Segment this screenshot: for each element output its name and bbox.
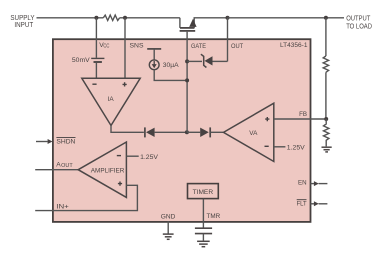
pin label GATE bbox=[191, 43, 207, 50]
svg-text:OUT: OUT bbox=[61, 163, 72, 169]
wire OUT pin down to zener bbox=[227, 18, 229, 62]
reference 1.25V at amplifier bbox=[126, 154, 158, 161]
wire SNS pin to IA non-inverting input bbox=[124, 18, 126, 79]
wire IN+ to amplifier non-inverting input bbox=[35, 185, 137, 210]
wire IA output down to diode row bbox=[111, 125, 144, 132]
wire gate to zener bbox=[187, 60, 202, 62]
svg-text:1.25V: 1.25V bbox=[140, 154, 158, 161]
ground (TMR capacitor) bbox=[197, 241, 210, 246]
op-amp AMPLIFIER bbox=[78, 142, 126, 197]
node SUPPLY INPUT label bbox=[10, 13, 34, 29]
pin label VCC bbox=[99, 42, 109, 50]
pin label AOUT bbox=[56, 162, 72, 170]
resistor RS (sense) bbox=[103, 15, 119, 20]
pin label EN with arrow bbox=[298, 179, 327, 186]
node output junction bbox=[324, 16, 328, 20]
wire sense resistor to MOSFET drain bbox=[120, 17, 180, 19]
block TIMER bbox=[188, 184, 219, 199]
node VCC junction bbox=[94, 16, 98, 20]
svg-text:FLT: FLT bbox=[297, 200, 307, 207]
op-amp IA bbox=[82, 78, 140, 125]
svg-text:CC: CC bbox=[103, 44, 109, 50]
svg-text:1.25V: 1.25V bbox=[287, 145, 305, 152]
svg-text:30µA: 30µA bbox=[163, 62, 179, 69]
svg-text:GATE: GATE bbox=[191, 43, 207, 50]
pin label SHDN (active low) with arrow bbox=[36, 138, 76, 146]
node OUTPUT TO LOAD label bbox=[346, 13, 372, 30]
wire VA non-inverting input to FB pin bbox=[274, 118, 327, 120]
svg-text:IA: IA bbox=[108, 96, 115, 103]
capacitor CT on TMR bbox=[195, 221, 212, 241]
IC block LT4356-1 bbox=[53, 39, 311, 222]
pin label FB bbox=[299, 111, 307, 118]
svg-text:FB: FB bbox=[299, 111, 307, 118]
svg-text:VA: VA bbox=[249, 130, 258, 137]
wire battery to IA inverting input bbox=[95, 63, 97, 78]
node SNS junction bbox=[123, 16, 127, 20]
wire MOSFET source to output bbox=[228, 17, 345, 19]
svg-text:TMR: TMR bbox=[207, 213, 221, 220]
svg-text:IN+: IN+ bbox=[56, 203, 69, 210]
pin label SNS bbox=[130, 42, 145, 49]
svg-text:INPUT: INPUT bbox=[14, 20, 33, 29]
svg-text:SHDN: SHDN bbox=[56, 139, 75, 146]
pin label GND bbox=[161, 213, 176, 220]
reference 1.25V at VA bbox=[274, 145, 305, 152]
svg-text:SNS: SNS bbox=[130, 42, 145, 49]
diode D1 (IA to gate) bbox=[145, 127, 187, 137]
svg-text:50mV: 50mV bbox=[72, 57, 90, 64]
svg-text:EN: EN bbox=[298, 179, 307, 186]
svg-text:AMPLIFIER: AMPLIFIER bbox=[91, 168, 125, 175]
value label 30uA bbox=[163, 62, 179, 69]
wire AOUT to amplifier output bbox=[35, 169, 78, 171]
wire GND pin down bbox=[167, 221, 169, 234]
svg-text:GND: GND bbox=[161, 213, 176, 220]
pin label TMR bbox=[207, 213, 221, 220]
node gate/diode junction bbox=[185, 130, 189, 134]
node gate/zener junction bbox=[185, 59, 189, 63]
transistor Q1 N-channel MOSFET bbox=[180, 18, 228, 31]
wire output rail down to divider bbox=[325, 18, 327, 56]
ground (GND pin) bbox=[163, 234, 174, 239]
svg-text:TO LOAD: TO LOAD bbox=[346, 22, 372, 31]
resistor R2 (lower divider) bbox=[324, 119, 329, 146]
wire R1 to FB node bbox=[325, 72, 327, 119]
pin label FLT (active low) with arrow bbox=[297, 200, 328, 208]
pin label IN+ bbox=[56, 203, 69, 210]
diode D2 (gate to VA) bbox=[187, 127, 224, 137]
node gate/current-source junction bbox=[185, 78, 189, 82]
current source 30uA bbox=[147, 49, 187, 81]
wire VCC pin down bbox=[95, 18, 97, 58]
svg-text:TIMER: TIMER bbox=[193, 189, 214, 196]
label LT4356-1 bbox=[280, 42, 308, 49]
pin label OUT bbox=[231, 43, 243, 50]
node OUT junction bbox=[226, 16, 230, 20]
op-amp VA bbox=[224, 103, 274, 161]
node FB junction bbox=[324, 117, 328, 121]
svg-text:LT4356-1: LT4356-1 bbox=[280, 42, 308, 49]
value label 50mV bbox=[72, 57, 90, 64]
wire TIMER to TMR pin bbox=[202, 199, 204, 222]
wire supply input to sense resistor bbox=[37, 17, 104, 19]
battery 50mV offset bbox=[91, 58, 104, 62]
svg-text:OUT: OUT bbox=[231, 43, 243, 50]
ground (divider) bbox=[322, 147, 332, 152]
resistor R1 (upper divider) bbox=[323, 56, 328, 72]
wire GATE pin vertical bbox=[186, 32, 188, 133]
zener diode Z1 (gate clamp) bbox=[201, 54, 228, 67]
